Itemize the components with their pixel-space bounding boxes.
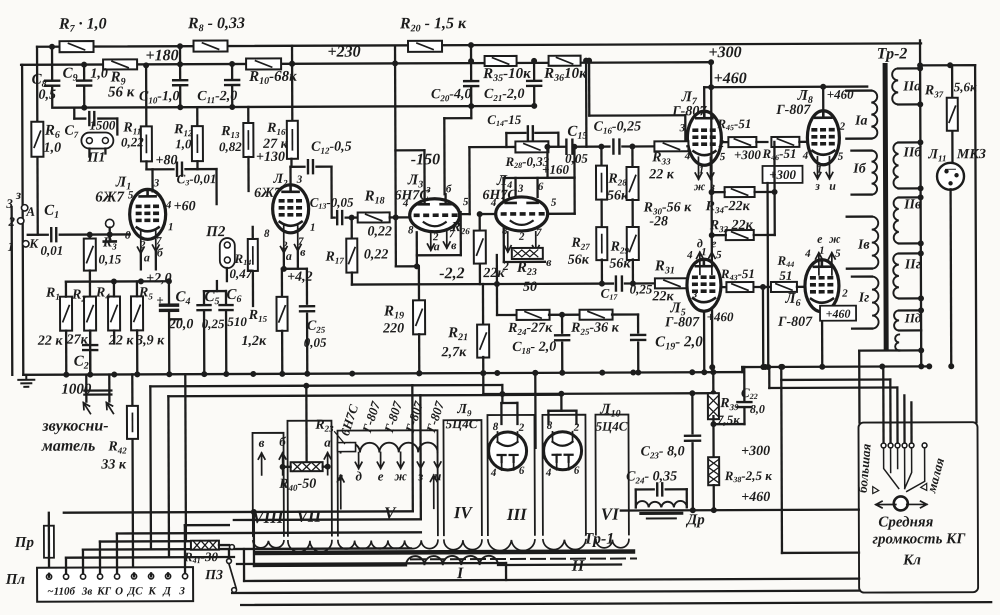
svg-text:и: и [829,179,836,193]
capacitor C6 [225,291,227,303]
svg-text:II: II [571,558,585,575]
svg-text:R20 - 1,5 к: R20 - 1,5 к [399,15,467,34]
winding Iv [872,217,879,269]
svg-text:3: 3 [153,177,160,189]
svg-text:5: 5 [838,151,844,163]
svg-text:П2: П2 [205,224,226,240]
svg-text:0,5: 0,5 [38,88,56,103]
resistor R14 [252,227,254,239]
capacitor C5 [203,291,205,303]
svg-text:IIг: IIг [904,257,921,272]
resistor R43 [721,286,727,288]
winding III box right [542,415,585,535]
svg-text:з: з [15,187,21,202]
svg-text:звукосни-: звукосни- [41,418,108,435]
svg-text:C12-0,5: C12-0,5 [311,140,352,156]
svg-text:51: 51 [779,268,792,283]
svg-text:VII: VII [297,507,323,526]
svg-text:R24-27к: R24-27к [507,321,553,337]
svg-text:е: е [711,236,717,250]
svg-text:C20-4,0: C20-4,0 [431,87,472,103]
tube L3 6N7S [410,199,460,232]
tube L1 6Zh7 [130,189,166,239]
svg-text:в: в [546,255,552,269]
svg-text:0,01: 0,01 [40,243,63,258]
wire heater extension [412,384,502,387]
svg-text:R3610к: R3610к [543,66,587,84]
svg-text:V: V [384,503,397,522]
svg-text:Г-807: Г-807 [775,103,811,118]
resistor R11 [145,65,148,126]
wire screen feed y116 [588,61,591,116]
svg-text:4: 4 [804,248,811,260]
capacitor C4 electrolytic [168,281,170,304]
svg-text:56к: 56к [568,253,590,268]
capacitor C15 [566,140,572,154]
svg-text:Пл: Пл [5,572,26,588]
capacitor C21 [531,58,537,64]
capacitor C16 [613,140,619,154]
resistor R46 [771,137,799,147]
svg-text:Тр-1: Тр-1 [584,531,615,548]
heater arrows [355,453,362,469]
svg-text:матель: матель [41,438,95,455]
wire bottom run 4 [241,602,991,605]
pickup leads [85,375,87,402]
svg-text:R38-2,5 к: R38-2,5 к [724,468,773,484]
tube L6 G-807 [805,260,839,312]
svg-text:C3-0,01: C3-0,01 [177,171,217,187]
wire R43-R44 node drop [760,284,766,290]
svg-text:з: з [692,288,698,300]
capacitor C9 [81,62,87,68]
ground bus [23,372,742,375]
svg-text:56 к: 56 к [108,84,135,100]
svg-text:в: в [300,245,306,259]
svg-text:5Ц4С: 5Ц4С [596,419,628,434]
svg-text:+300: +300 [734,147,761,162]
svg-text:+80: +80 [155,153,177,168]
svg-text:+230: +230 [327,44,360,61]
switch contacts [881,443,886,448]
wire L11 down [949,189,952,366]
wire drops to connector [131,374,133,405]
svg-text:а: а [144,250,150,264]
svg-text:22 к: 22 к [37,334,64,349]
svg-text:220: 220 [382,321,404,336]
svg-text:4: 4 [165,199,172,211]
resistor R41 [191,541,219,550]
resistor R26 [479,214,481,231]
wire R40 top feed [305,386,308,462]
svg-text:6Ж7: 6Ж7 [95,189,124,205]
capacitor C20 [468,42,474,48]
wire y511 run [411,385,414,511]
wire L8 cathode [814,157,821,179]
svg-text:III: III [506,505,528,524]
svg-text:R8 - 0,33: R8 - 0,33 [187,15,245,34]
capacitor C23 [691,393,693,433]
svg-text:4: 4 [802,150,809,162]
transformer Tr-1 core [256,551,633,552]
svg-text:1: 1 [8,239,15,254]
junction dots on y106 rail [81,105,87,111]
resistor R39 [708,393,719,419]
wire cathode bus [66,280,169,283]
svg-text:ж: ж [694,179,706,193]
svg-text:+60: +60 [174,199,196,214]
svg-text:+180: +180 [145,47,178,64]
resistor R4 [108,296,120,330]
svg-text:е: е [378,468,384,483]
resistor R18 [358,212,390,222]
capacitor C7 and jack P1 [73,108,75,119]
wire y147 coupling line [469,146,515,148]
wire L1 cathode legs [137,231,144,253]
svg-text:3: 3 [679,122,686,134]
wire heater run y395 [168,394,420,397]
svg-text:+460: +460 [741,490,770,505]
input terminals [21,205,27,211]
resistor R3 [87,232,93,238]
svg-text:C21-2,0: C21-2,0 [484,87,525,103]
svg-text:0,82: 0,82 [219,139,242,154]
wire y106 rail [54,106,532,108]
svg-text:1,0: 1,0 [44,141,62,156]
wire from IId to box [859,349,899,351]
svg-text:C19- 2,0: C19- 2,0 [655,334,703,352]
capacitor C12 [308,160,313,173]
resistor R2 [84,297,96,331]
svg-text:МКЗ: МКЗ [956,147,986,162]
wire R36 out drop [583,58,589,64]
fuse Pr [48,513,50,526]
wire left of box down [780,367,783,553]
connector terminals [46,574,51,579]
svg-text:2,7к: 2,7к [441,345,468,360]
resistor R1 [60,297,72,331]
svg-text:+4,2: +4,2 [287,270,313,285]
svg-text:5,6к: 5,6к [954,79,977,94]
svg-text:6: 6 [538,181,544,193]
arrows inside V box [337,476,344,509]
svg-text:4: 4 [686,249,693,261]
resistor R20 [408,41,442,52]
svg-text:А: А [25,204,35,219]
svg-text:Iг: Iг [858,291,870,306]
svg-text:Iа: Iа [854,114,868,129]
svg-text:0,47: 0,47 [229,266,252,281]
resistor R16 [291,64,294,121]
resistor R45 [721,141,728,143]
svg-text:з: з [814,179,820,193]
svg-text:C23- 8,0: C23- 8,0 [641,444,685,460]
transformer Tr-2 core [885,66,886,349]
svg-text:+460: +460 [714,70,747,87]
wire L4 grid [480,213,496,215]
wire input shield x12 [10,207,13,375]
winding II small [895,334,899,350]
tube L4 6N7S [496,197,548,231]
grid stopper bead [107,231,113,237]
resistor R19 [418,266,420,300]
svg-text:2: 2 [7,214,15,229]
svg-text:C10-1,0: C10-1,0 [139,89,180,105]
resistor R40 [291,462,323,471]
connector PL box [37,567,193,602]
svg-text:R32 22к: R32 22к [709,218,754,234]
wire L4 enclosure box [504,177,575,180]
wire rectifier tops L9 [501,402,517,404]
resistor R7 [60,41,94,52]
svg-text:1500: 1500 [89,117,116,132]
svg-text:Iв: Iв [857,238,871,253]
svg-text:R7 · 1,0: R7 · 1,0 [58,16,107,35]
svg-text:Г-807: Г-807 [777,315,813,330]
svg-text:+460: +460 [707,309,734,324]
resistor R21 [482,284,484,325]
capacitor C11 [229,61,235,67]
resistor R10 [246,58,281,69]
svg-text:2: 2 [502,259,509,273]
wire x226 x204 tops [204,290,226,292]
svg-text:VI: VI [601,505,620,524]
svg-text:0,22: 0,22 [364,247,389,262]
wire +300 box drop [766,183,769,367]
svg-text:1: 1 [819,245,825,257]
svg-text:Тр-2: Тр-2 [877,45,908,62]
svg-text:R41-30: R41-30 [183,549,219,565]
winding Ib [871,151,877,195]
tube L9 5Ts4S [489,432,527,470]
resistor R38 [708,457,719,485]
svg-text:е: е [817,232,823,246]
svg-text:-28: -28 [649,214,668,229]
svg-text:C24- 0,35: C24- 0,35 [626,469,677,485]
svg-text:8: 8 [125,229,131,241]
svg-text:+460: +460 [827,87,854,102]
svg-text:+300: +300 [741,444,770,459]
svg-text:в: в [259,435,265,450]
wire x38 column [36,47,39,122]
wire x775 column [773,142,776,235]
winding VI box [595,415,628,535]
wire L7 cathode [695,157,702,179]
capacitor C3 [146,168,173,170]
svg-text:2: 2 [518,231,525,243]
capacitor C19 [637,314,639,332]
svg-text:8,0: 8,0 [750,402,765,416]
svg-text:Пр: Пр [14,535,35,551]
svg-text:33 к: 33 к [100,457,127,472]
svg-text:C18- 2,0: C18- 2,0 [512,340,556,356]
winding IIb [893,142,898,188]
resistor R37 [920,64,952,66]
svg-text:0,22: 0,22 [121,134,144,149]
resistor R6 [31,122,43,157]
svg-text:3: 3 [296,174,303,186]
svg-text:4: 4 [490,467,497,479]
svg-text:К: К [28,236,39,251]
svg-text:Г-807: Г-807 [671,104,707,119]
svg-text:50: 50 [523,280,537,295]
svg-text:П1: П1 [86,151,105,166]
wire x712 column [711,62,712,367]
svg-text:6Н7С: 6Н7С [482,188,517,203]
svg-text:2: 2 [718,138,725,150]
tube L8 G-807 [822,87,824,111]
svg-text:5: 5 [835,248,841,260]
svg-text:5: 5 [128,189,134,201]
svg-text:7: 7 [536,227,542,239]
resistor R12 [196,107,198,126]
resistor R34 [725,187,755,197]
svg-text:6: 6 [519,465,525,477]
tube L10 5Ts4S [544,432,582,470]
svg-text:22 к: 22 к [108,333,135,348]
lamp L11 MK3 [937,163,964,190]
wire -150 feed [394,46,397,266]
svg-text:громкость КГ: громкость КГ [872,531,966,547]
capacitor C17 [616,277,622,291]
svg-text:0,22: 0,22 [367,224,392,239]
winding I [406,556,498,566]
svg-text:6: 6 [574,465,580,477]
dashed line under core [411,557,636,560]
resistor R35 [485,56,517,66]
svg-text:C16-0,25: C16-0,25 [594,119,642,135]
svg-text:C13-0,05: C13-0,05 [310,195,354,211]
svg-text:8: 8 [408,224,414,236]
svg-text:5: 5 [720,151,726,163]
svg-text:5: 5 [463,196,469,208]
wire y394 run [483,392,713,395]
resistor R5 [131,296,143,330]
wire +460 top rail y45 [37,43,921,46]
winding VII box [287,421,331,536]
svg-text:0,25: 0,25 [202,316,225,331]
winding V box [338,430,438,535]
resistor R23b in heater lead [338,443,356,452]
winding IId [894,310,899,330]
capacitor C14 loop and R28a on line [505,133,507,147]
svg-text:1: 1 [310,222,316,234]
svg-text:~110б: ~110б [47,586,75,598]
svg-text:ДС: ДС [127,585,144,597]
svg-text:Iб: Iб [852,162,867,177]
svg-text:22 к: 22 к [648,167,675,182]
resistor R17 [351,218,353,239]
svg-text:б: б [446,183,452,195]
speaker box [858,422,978,592]
capacitor C8 [51,47,53,79]
wire L2 cathode legs [280,226,287,253]
svg-text:Др: Др [685,512,705,528]
svg-text:R43-51: R43-51 [720,266,755,282]
resistor R29 [627,227,639,260]
svg-text:-2,2: -2,2 [439,265,464,282]
wire heater run y385 [150,385,412,386]
svg-text:R45-51: R45-51 [716,116,751,132]
svg-text:Д: Д [162,585,171,597]
svg-text:1: 1 [701,246,707,258]
svg-text:в: в [451,238,457,252]
winding VIII box [253,433,284,536]
svg-text:Г-807: Г-807 [664,315,700,330]
winding IIv [894,197,899,243]
svg-text:R10-68к: R10-68к [248,69,297,87]
tube L7 G-807 [703,87,705,111]
svg-text:C11-2,0: C11-2,0 [197,89,237,105]
tube L2 6Zh7 [273,185,309,233]
wire y315 row [497,314,517,316]
svg-text:ж: ж [394,468,407,483]
resistor R44 [771,282,797,292]
resistor R32 [726,230,754,240]
svg-text:О: О [115,585,123,597]
svg-text:+130: +130 [256,150,285,165]
wire grid bias feed line y284 [352,284,613,285]
svg-text:4: 4 [402,197,409,209]
switch rotor [894,496,908,510]
wire rectifier tops L10 [548,410,576,412]
svg-text:8: 8 [493,421,499,433]
arrows v b a [258,453,265,475]
svg-text:з: з [425,183,431,195]
resistor R36 [549,56,581,66]
svg-text:3: 3 [517,183,524,195]
svg-text:5Ц4С: 5Ц4С [446,416,478,431]
svg-text:КГ: КГ [96,585,112,597]
svg-text:3,9 к: 3,9 к [135,333,165,348]
winding Ia [871,91,877,139]
svg-text:З: З [178,585,185,597]
svg-text:R46-51: R46-51 [761,146,796,162]
switch wires down [884,448,899,488]
resistor R28 [600,147,602,166]
svg-text:з: з [417,468,423,483]
svg-text:IIа: IIа [902,79,921,94]
capacitor C1 [28,234,48,236]
svg-text:4: 4 [490,197,497,209]
winding III box left [487,415,534,535]
wire VI to choke [621,508,859,511]
capacitor C22 [743,367,745,400]
svg-text:6Н7С: 6Н7С [394,188,429,203]
svg-text:+300: +300 [708,44,741,61]
resistor R30 [631,146,633,167]
svg-text:3в: 3в [81,586,93,598]
svg-text:8: 8 [264,228,270,240]
svg-text:+: + [156,292,163,307]
svg-text:К: К [147,585,156,597]
svg-text:0,15: 0,15 [98,251,121,266]
resistor R24 [517,310,550,320]
winding IIg [893,253,899,298]
capacitor C25 [306,269,308,304]
svg-text:д: д [355,469,362,484]
svg-text:510: 510 [227,314,247,329]
resistor R42 [127,406,138,439]
svg-text:б: б [279,434,286,449]
wire x921 column [920,40,921,366]
svg-text:6Ж7: 6Ж7 [254,186,282,201]
winding IIa [892,68,898,104]
+300 boxed label [762,166,802,183]
potentiometer R23 [504,232,511,252]
svg-text:а: а [434,239,440,253]
svg-text:+460: +460 [826,307,851,321]
